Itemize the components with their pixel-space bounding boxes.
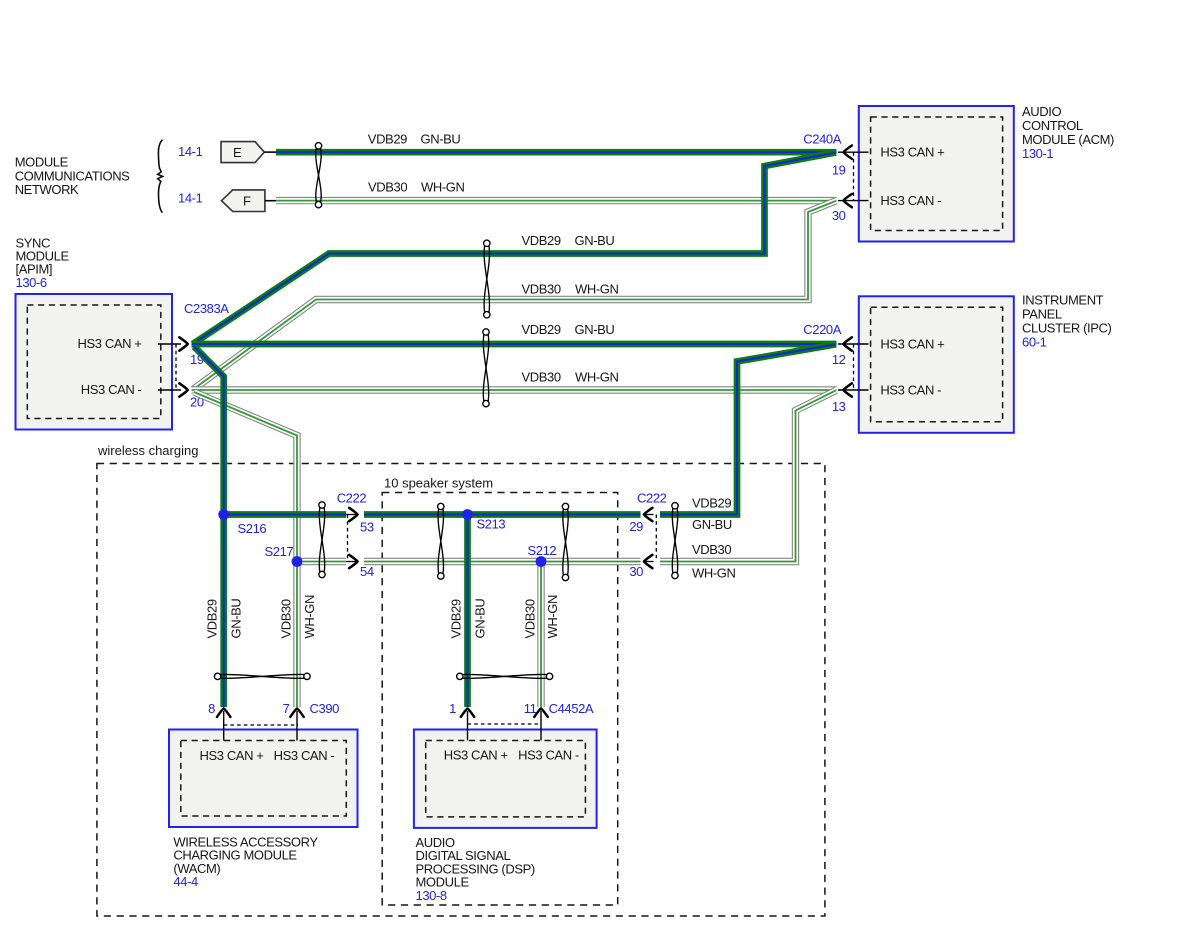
svg-text:C4452A: C4452A xyxy=(549,701,594,716)
arrow into WACM pin 8 xyxy=(217,709,230,717)
SYNC pin line 19 xyxy=(158,343,181,345)
svg-text:60-1: 60-1 xyxy=(1022,335,1047,350)
wire VDB29 GN-BU: ACM pin 19 branch to SYNC pin 19 xyxy=(193,153,836,345)
svg-text:WH-GN: WH-GN xyxy=(575,370,619,385)
svg-text:F: F xyxy=(243,194,251,209)
wire VDB29 GN-BU: SYNC pin 19 to WACM pin 8 xyxy=(194,347,224,708)
svg-text:HS3 CAN -: HS3 CAN - xyxy=(81,382,142,397)
splice S212 xyxy=(536,556,547,567)
svg-text:INSTRUMENT: INSTRUMENT xyxy=(1022,293,1104,308)
DSP pin line 11 xyxy=(540,711,542,741)
svg-text:GN-BU: GN-BU xyxy=(229,599,244,639)
arrow into DSP pin 11 xyxy=(534,709,547,717)
arrow into ACM pin 30 xyxy=(844,194,852,207)
DSP pin line 1 xyxy=(467,711,469,741)
svg-text:VDB29: VDB29 xyxy=(449,599,464,638)
svg-text:S212: S212 xyxy=(528,543,557,558)
svg-text:NETWORK: NETWORK xyxy=(15,182,79,197)
wire VDB30 WH-GN: SYNC pin 20 to IPC pin 13 xyxy=(192,386,837,393)
arrow at C222 pin 30 xyxy=(644,555,652,568)
svg-text:1: 1 xyxy=(449,701,456,716)
svg-text:HS3 CAN -: HS3 CAN - xyxy=(274,748,335,763)
wire VDB30 WH-GN: IPC pin 13 branch to C222 pin 30 xyxy=(660,390,836,561)
arrow into DSP pin 1 xyxy=(461,709,474,717)
svg-text:VDB30: VDB30 xyxy=(692,542,731,557)
twisted pair symbol (SYNC-IPC runs) xyxy=(483,329,489,407)
svg-text:19: 19 xyxy=(832,163,846,178)
svg-text:C222: C222 xyxy=(637,491,667,506)
WACM pin line 8 xyxy=(223,711,225,741)
svg-text:S213: S213 xyxy=(477,517,506,532)
off-page connector F xyxy=(222,190,265,212)
svg-text:VDB30: VDB30 xyxy=(522,282,561,297)
ACM pin line 19 xyxy=(838,151,869,153)
svg-text:C390: C390 xyxy=(310,701,340,716)
module ACM box xyxy=(859,106,1014,242)
twisted pair symbol (WACM drops) xyxy=(214,673,310,679)
svg-text:HS3 CAN -: HS3 CAN - xyxy=(880,382,941,397)
svg-text:HS3 CAN -: HS3 CAN - xyxy=(880,193,941,208)
wire VDB30 WH-GN: S212 to DSP pin 11 xyxy=(537,562,544,708)
svg-text:53: 53 xyxy=(360,520,374,535)
wire VDB30 WH-GN: ACM pin 30 branch to SYNC pin 20 xyxy=(193,201,836,390)
twisted pair symbol (right of C222 right) xyxy=(672,503,678,579)
splice S216 xyxy=(218,509,229,520)
svg-text:GN-BU: GN-BU xyxy=(692,517,732,532)
arrow into ACM pin 19 xyxy=(844,146,852,159)
module IPC box xyxy=(859,296,1014,433)
svg-text:C240A: C240A xyxy=(803,132,841,147)
svg-text:HS3 CAN +: HS3 CAN + xyxy=(444,748,508,763)
svg-text:GN-BU: GN-BU xyxy=(575,233,615,248)
svg-text:VDB29: VDB29 xyxy=(692,496,731,511)
wire VDB29 GN-BU: S213 to DSP pin 1 xyxy=(464,515,471,708)
wire VDB29 GN-BU: IPC pin 12 branch to C222 pin 29 xyxy=(660,344,836,514)
svg-text:WH-GN: WH-GN xyxy=(545,595,560,639)
svg-text:30: 30 xyxy=(629,564,643,579)
svg-text:WH-GN: WH-GN xyxy=(692,566,736,581)
twisted pair symbol (speaker box right) xyxy=(562,503,568,580)
svg-text:S217: S217 xyxy=(265,544,294,559)
WACM pin line 7 xyxy=(296,711,298,741)
arrow into IPC pin 12 xyxy=(844,337,852,350)
svg-text:29: 29 xyxy=(629,519,643,534)
svg-text:30: 30 xyxy=(832,208,846,223)
wire VDB30 WH-GN: S217 to C222 pin 54 xyxy=(297,558,346,565)
svg-text:WH-GN: WH-GN xyxy=(575,282,619,297)
module WACM box xyxy=(169,730,358,828)
IPC pin line 13 xyxy=(838,389,869,391)
svg-text:14-1: 14-1 xyxy=(178,144,203,159)
svg-text:8: 8 xyxy=(208,701,215,716)
svg-text:7: 7 xyxy=(283,701,290,716)
svg-text:HS3 CAN +: HS3 CAN + xyxy=(78,336,142,351)
svg-text:130-8: 130-8 xyxy=(416,888,447,903)
svg-text:GN-BU: GN-BU xyxy=(575,322,615,337)
svg-text:MODULE (ACM): MODULE (ACM) xyxy=(1022,132,1114,147)
wire VDB30 WH-GN: F to ACM pin 30 xyxy=(276,197,837,204)
svg-text:WH-GN: WH-GN xyxy=(421,180,465,195)
svg-text:GN-BU: GN-BU xyxy=(473,599,488,639)
svg-text:wireless charging: wireless charging xyxy=(97,443,198,458)
splice S213 xyxy=(462,509,473,520)
connector C390 dashed link xyxy=(224,724,298,726)
svg-text:E: E xyxy=(233,145,242,160)
svg-text:VDB30: VDB30 xyxy=(522,370,561,385)
svg-text:HS3 CAN +: HS3 CAN + xyxy=(880,336,944,351)
svg-text:10 speaker system: 10 speaker system xyxy=(384,475,493,490)
svg-text:VDB30: VDB30 xyxy=(279,599,294,638)
connector C240A dashed link xyxy=(853,152,855,200)
arrow at C222 pin 53 xyxy=(349,508,357,521)
twisted pair symbol (E/F run) xyxy=(315,143,321,208)
C222 right tail line 29 xyxy=(644,514,654,516)
twisted pair symbol (left of C222 left) xyxy=(319,502,325,578)
svg-text:MODULE: MODULE xyxy=(15,155,69,170)
svg-text:CLUSTER (IPC): CLUSTER (IPC) xyxy=(1022,321,1111,336)
wire VDB29 GN-BU: C222 pin 53 to C222 pin 29 xyxy=(364,511,641,518)
svg-text:VDB30: VDB30 xyxy=(523,599,538,638)
svg-text:54: 54 xyxy=(360,564,374,579)
arrow into WACM pin 7 xyxy=(290,709,303,717)
svg-text:11: 11 xyxy=(524,701,537,716)
wire VDB29 GN-BU: S216 to C222 pin 53 xyxy=(224,511,346,518)
arrow into SYNC pin 19 xyxy=(179,337,187,350)
svg-text:14-1: 14-1 xyxy=(178,190,203,205)
connector C222 (right) dashed link xyxy=(655,515,657,562)
twisted pair symbol (DSP drops) xyxy=(457,673,553,679)
connector C222 (left) dashed link xyxy=(347,515,349,562)
wire VDB29 GN-BU: E to ACM pin 19 xyxy=(276,149,837,156)
svg-text:COMMUNICATIONS: COMMUNICATIONS xyxy=(15,168,130,183)
svg-text:VDB29: VDB29 xyxy=(522,322,561,337)
C222 right tail line 30 xyxy=(644,561,654,563)
svg-text:VDB30: VDB30 xyxy=(368,180,407,195)
svg-text:PANEL: PANEL xyxy=(1022,307,1062,322)
splice S217 xyxy=(292,556,303,567)
svg-text:WH-GN: WH-GN xyxy=(302,595,317,639)
module SYNC [APIM] box xyxy=(16,294,173,430)
svg-text:VDB29: VDB29 xyxy=(368,132,407,147)
svg-text:S216: S216 xyxy=(238,521,267,536)
wire VDB30 WH-GN: SYNC pin 20 to WACM pin 7 xyxy=(194,392,297,707)
arrow at C222 pin 54 xyxy=(349,555,357,568)
module DSP box xyxy=(414,730,597,828)
svg-text:13: 13 xyxy=(832,399,846,414)
SYNC pin line 20 xyxy=(158,389,181,391)
svg-text:VDB29: VDB29 xyxy=(205,599,220,638)
wire VDB30 WH-GN: C222 pin 54 to C222 pin 30 xyxy=(364,558,641,565)
twisted pair symbol (speaker box left) xyxy=(438,503,444,579)
svg-text:HS3 CAN -: HS3 CAN - xyxy=(518,748,579,763)
arrow into IPC pin 13 xyxy=(844,383,852,396)
svg-text:12: 12 xyxy=(832,352,846,367)
IPC pin line 12 xyxy=(838,343,869,345)
C222 left tail line 54 xyxy=(346,561,358,563)
arrow at C222 pin 29 xyxy=(644,508,652,521)
svg-text:AUDIO: AUDIO xyxy=(1022,104,1061,119)
wire VDB29 GN-BU: SYNC pin 19 to IPC pin 12 xyxy=(192,341,837,348)
C222 left tail line 53 xyxy=(346,514,358,516)
svg-text:C220A: C220A xyxy=(803,322,841,337)
connector C4452A dashed link xyxy=(468,723,542,725)
connector C2383A dashed link xyxy=(175,344,177,390)
svg-text:130-1: 130-1 xyxy=(1022,146,1053,161)
svg-text:130-6: 130-6 xyxy=(16,275,47,290)
dashed box: 10 speaker system area xyxy=(382,493,618,906)
svg-text:GN-BU: GN-BU xyxy=(421,132,461,147)
svg-text:CONTROL: CONTROL xyxy=(1022,118,1083,133)
svg-text:VDB29: VDB29 xyxy=(522,233,561,248)
dashed box: wireless charging area xyxy=(97,464,825,917)
twisted pair symbol (ACM branch runs) xyxy=(484,240,490,318)
brace for network connectors xyxy=(158,140,163,213)
svg-text:C2383A: C2383A xyxy=(184,301,229,316)
svg-text:HS3 CAN +: HS3 CAN + xyxy=(200,748,264,763)
svg-text:44-4: 44-4 xyxy=(173,874,198,889)
svg-text:HS3 CAN +: HS3 CAN + xyxy=(880,145,944,160)
ACM pin line 30 xyxy=(838,200,869,202)
svg-text:C222: C222 xyxy=(337,491,367,506)
off-page connector E xyxy=(221,142,264,163)
arrow into SYNC pin 20 xyxy=(179,383,187,396)
connector C220A dashed link xyxy=(853,344,855,390)
